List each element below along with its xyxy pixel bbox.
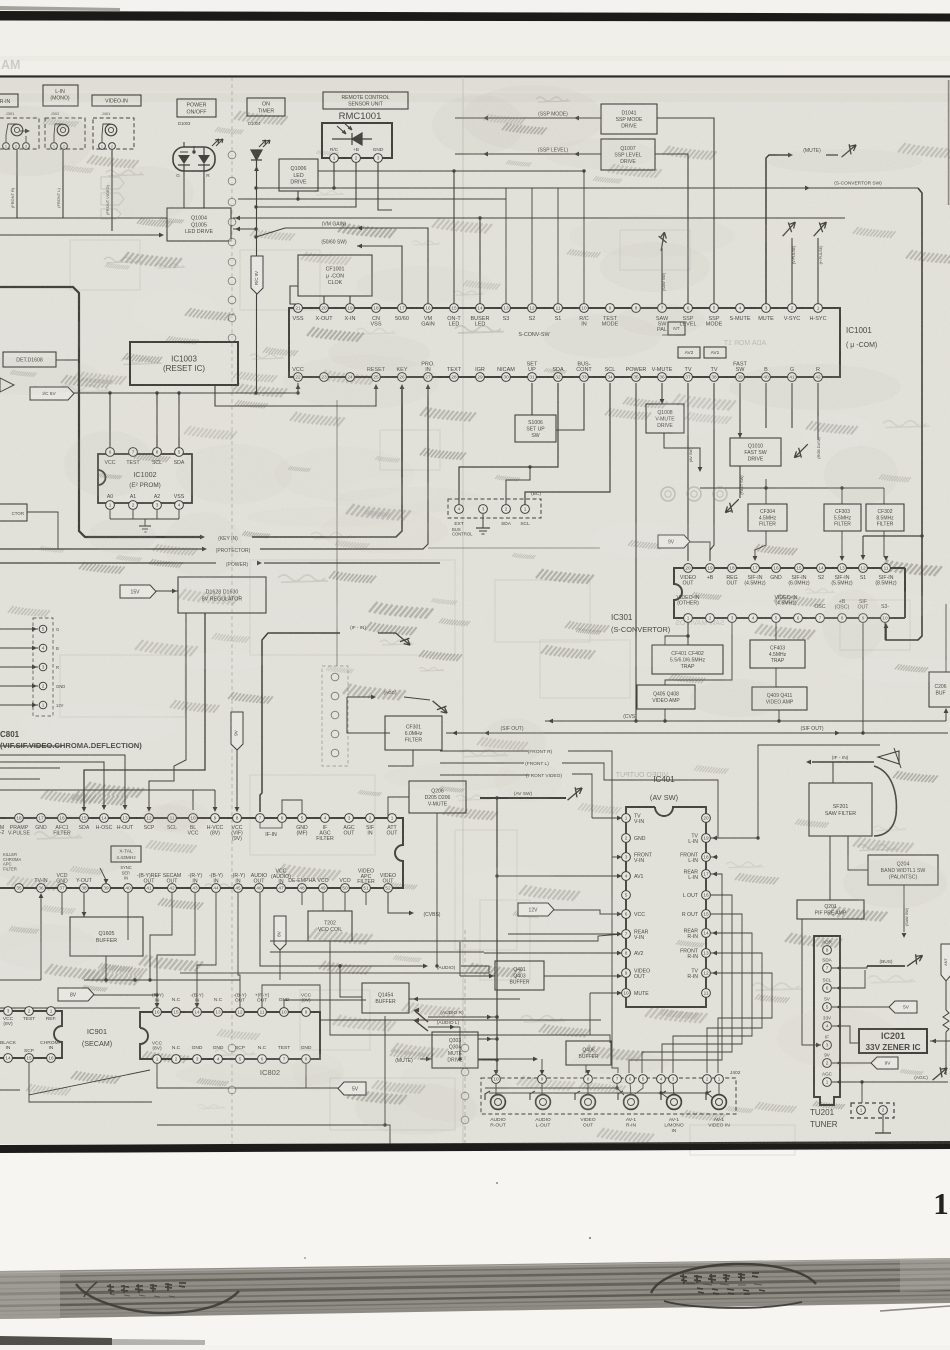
stamp right <box>651 1264 816 1308</box>
transistor Q303 Q304 MUTE box <box>432 1032 478 1068</box>
wire IC1003 to RESET pin <box>215 385 376 406</box>
wire Q1454 left <box>340 966 362 997</box>
LED D1001 D1002 dual indicator <box>173 147 215 171</box>
module RMC1001 box <box>322 123 392 158</box>
wire IC802 pin1 down <box>157 1064 306 1088</box>
wire V-MUTE drop <box>661 383 663 404</box>
power tag 5V tuner <box>889 1001 917 1013</box>
wire SDA bus out <box>832 966 867 968</box>
jack J301 dashed box <box>0 118 39 149</box>
wire bus 980 <box>0 1007 140 1009</box>
module IC1003 RESET box <box>130 342 238 385</box>
wire TV-IN arrow <box>40 898 42 980</box>
switch S1006 SET UP SW box <box>515 415 556 442</box>
wire AGC out <box>832 1081 948 1083</box>
ghost jack row <box>661 487 675 501</box>
op-amp U IC802 body <box>140 1012 320 1059</box>
power tag 15V <box>120 585 156 598</box>
wire LED to Q1004 <box>183 171 185 208</box>
diode D1041 SSP MODE DRIVE box <box>601 104 657 134</box>
wire 9V flag IC801 <box>231 712 243 750</box>
pins IC401 right <box>702 814 711 823</box>
wire FAST SW drop <box>739 383 741 438</box>
pins IC301 bottom row <box>684 614 693 623</box>
wire SCL bus out <box>832 970 865 988</box>
module BUF box right edge <box>929 672 950 707</box>
LED D1004 symbol <box>251 150 262 172</box>
wire SSP LEVEL right <box>655 154 688 304</box>
wire IC301 pin3 down <box>665 622 732 685</box>
wire RC9V rail <box>296 384 301 389</box>
wire S-CONV bus <box>256 187 918 189</box>
diode D1003 POWER ON/OFF box <box>177 99 216 117</box>
wire DE-EMPHA down <box>301 893 303 905</box>
regulator D1628 D1630 box <box>178 577 266 613</box>
wire CF301 down <box>388 750 413 766</box>
ghost flags <box>101 177 124 219</box>
ground IC1002 pins <box>109 510 111 519</box>
connector J301 R-IN label box <box>0 94 18 107</box>
wire R OUT right <box>662 914 742 1073</box>
flag ANT <box>941 944 950 981</box>
wire S-CONV branch <box>863 535 922 537</box>
net label MUTE <box>788 153 793 158</box>
wire audio L route <box>478 1058 536 1060</box>
wire SSP MODE left <box>455 117 601 119</box>
wire Q1006 bus <box>318 170 584 172</box>
wire H-OUT feed <box>0 762 104 806</box>
wire IC1001 SDA stub <box>506 467 530 505</box>
net label AUDIO L <box>428 1026 460 1028</box>
wire J402 bus1 <box>485 1083 617 1088</box>
wire left long vertical <box>496 798 498 1073</box>
wire BUS-CONT drop <box>556 383 584 430</box>
wire KEY IN right <box>252 388 402 537</box>
power tag 12V <box>518 903 554 916</box>
wire V PULSE <box>791 238 793 304</box>
wire CVS line <box>545 720 946 722</box>
pins IC901 top <box>4 1007 13 1016</box>
wire IC802 secam <box>150 893 172 980</box>
wires J402 jacks <box>495 1083 497 1095</box>
pins IC901 bottom <box>4 1054 13 1063</box>
wire front stubs left <box>440 750 528 752</box>
wire POWER left <box>0 562 216 564</box>
op-amp U IC901 body <box>0 1011 62 1058</box>
switch audio contacts <box>414 1010 428 1022</box>
wire RC IN up <box>583 171 585 304</box>
diode DET D1608 box <box>3 352 56 367</box>
label AV1 box <box>704 347 726 358</box>
pins J301 <box>3 143 10 150</box>
wire CTOR link <box>27 512 58 549</box>
power tag 5V IC802 <box>338 1082 366 1095</box>
jack J401 phono <box>105 124 117 136</box>
label NT box <box>668 322 685 335</box>
pins IC801 top row <box>15 814 24 823</box>
wire MUTE pin10 <box>590 992 622 994</box>
jack J301 phono <box>11 124 23 136</box>
trap CF401 CF402 box <box>652 645 723 674</box>
transistor Q1007 SSP LEVEL DRIVE box <box>601 139 655 170</box>
filter CF301 box <box>385 716 442 750</box>
wire q204 link <box>848 855 868 870</box>
wires P801 <box>0 628 38 630</box>
wire CF403 to amp <box>775 668 777 687</box>
transistor Q1008 V-MUTE DRIVE box <box>646 404 684 433</box>
wire REAR R-IN right <box>673 933 752 1073</box>
wire ON-T LED <box>453 171 455 304</box>
wire regulator out2 <box>149 613 186 808</box>
svg-text:AM: AM <box>1 58 20 72</box>
wire pin10 down <box>884 622 886 640</box>
wire long net y229 <box>233 228 256 230</box>
wire bottom run <box>157 1125 390 1144</box>
wire mid drop2 <box>105 980 107 1008</box>
net label AUDIO <box>260 893 424 966</box>
module IC1002 body <box>98 454 192 503</box>
wire FRONT V-IN link <box>612 856 622 858</box>
wire L OUT right <box>642 895 732 1073</box>
wire IC802 cross1 <box>157 893 195 1008</box>
transistor Q1006 LED DRIVE box <box>279 159 318 191</box>
wire SET UP drop <box>531 383 533 415</box>
pins BUS CONTROL <box>455 505 464 514</box>
amp Q405 Q408 VIDEO AMP box <box>637 685 695 709</box>
wire long 1035 <box>284 1000 610 1043</box>
wire T202 down <box>330 941 366 1000</box>
box PROTECTOR cut <box>0 504 27 521</box>
op-amp U IC301 body <box>674 568 905 618</box>
jack J401 dashed box <box>93 118 134 149</box>
connector J302 L-IN label box <box>43 85 78 106</box>
wire Q406 down <box>585 1065 587 1073</box>
wire RGB drops <box>765 383 767 428</box>
connector P801 dashed box <box>33 618 53 716</box>
label IF-IN bracket <box>260 823 282 828</box>
connector ghost column pins <box>461 1044 469 1052</box>
wire SAW SW <box>661 248 663 304</box>
diode D1004 ON TIMER box <box>247 98 285 116</box>
wire H PULSE <box>817 238 819 304</box>
wire TV R-IN right <box>710 973 772 1073</box>
connector BUS CONTROL dashed box <box>448 499 541 518</box>
wire bottom left edge <box>0 1089 20 1091</box>
wire IC301 pin1 down <box>687 622 689 645</box>
wire CF302 down <box>883 531 885 557</box>
wire RMC pin1 <box>333 162 335 188</box>
wire AV2 in <box>484 952 622 954</box>
wire Q1605 down <box>105 956 107 980</box>
wire SIF pin9 down <box>862 622 864 733</box>
wire RMC pin3 <box>378 162 392 210</box>
pins IC301 top row <box>684 564 693 573</box>
antenna resistor <box>945 970 947 1010</box>
stamp left <box>76 1282 239 1313</box>
amp Q409 Q411 VIDEO AMP box <box>752 687 807 710</box>
transistor Q1605 BUFFER box <box>70 917 143 956</box>
crystal X-TAL box <box>111 846 141 862</box>
wire BUSER LED <box>479 218 481 304</box>
wire VIF vcc <box>282 800 302 814</box>
wire regulator out <box>84 613 205 808</box>
wire IC802 cross2 <box>197 893 216 1008</box>
transistor Q206 V-MUTE box <box>409 781 466 813</box>
remote sensor unit label box <box>323 92 408 109</box>
wire IF-IN arrow <box>812 761 874 763</box>
net label S-CONVERTOR SW <box>805 186 810 191</box>
wire long net y218 <box>0 217 167 219</box>
wire FAST SW out <box>739 466 741 498</box>
wire Q206 left <box>388 797 409 818</box>
transistor Q1004 Q1005 LED DRIVE box <box>167 208 231 241</box>
transistor Q1010 FAST SW DRIVE box <box>730 438 781 466</box>
wire Q401 out <box>544 975 622 977</box>
power tag I/C 5V <box>30 387 74 400</box>
filter CF303 box <box>824 504 861 531</box>
wire POWER pin drop <box>635 383 637 721</box>
pins IC1002 bottom <box>106 501 115 510</box>
resonator CF1001 box <box>298 255 372 296</box>
op-amp U IC801 body <box>0 818 403 888</box>
wire TV AV2 drop <box>687 383 689 561</box>
jack J302 dashed box <box>45 118 85 149</box>
arrows J402 top <box>494 1070 499 1075</box>
ground CN201 <box>882 1115 884 1133</box>
wire H-VCC drop <box>214 790 216 808</box>
wire pin18 drop <box>612 857 618 1073</box>
filter CF302 box <box>866 504 904 531</box>
amp Q201 PIF PRE AMP box <box>797 900 864 919</box>
wire REAR L-IN right <box>629 874 722 1073</box>
tuner TU201 body <box>814 936 840 1105</box>
wire Q303 out <box>478 1038 497 1040</box>
wire TV V-IN link <box>592 817 622 819</box>
wire CF303 down <box>841 531 843 557</box>
module IC201 33V ZENER box <box>859 1029 927 1053</box>
wire Q1008 out <box>664 433 700 468</box>
wire APC down <box>365 893 367 905</box>
wire RMC pin2 <box>256 162 356 207</box>
wire SSP LEVEL left <box>455 153 601 155</box>
pins P801 column <box>39 625 47 633</box>
wire H lines left <box>0 767 60 769</box>
wire TV L-IN right <box>710 837 758 839</box>
wire SF201 down1 <box>829 836 831 900</box>
connector ghost column pins2 <box>228 1044 236 1052</box>
connector J401 VIDEO-IN label box <box>92 95 141 106</box>
coil T202 VCO COIL box <box>308 911 352 941</box>
wire SDA to bus <box>459 383 558 505</box>
wire rear bus left <box>270 934 622 941</box>
amp Q406 BUFFER box <box>566 1041 611 1065</box>
filter CF304 box <box>748 504 787 531</box>
pins J302 <box>51 143 58 150</box>
wire vertical 337 <box>336 400 338 666</box>
wire 50/60 SW <box>357 246 402 304</box>
wire BUF feed <box>945 604 947 672</box>
wire FRONT R <box>16 150 18 218</box>
wire FRONT L <box>62 150 64 218</box>
wire SCL to bus <box>525 383 610 505</box>
wire IC1002 SCL up <box>156 393 158 448</box>
wire FRONT L-IN right <box>710 856 718 858</box>
pins IC1002 top <box>106 448 115 457</box>
wire IC901 scp down <box>29 1063 150 1095</box>
wire IC1002 SDA up <box>178 393 180 448</box>
pins IC801 bottom row <box>15 884 24 893</box>
power tag 9V tuner <box>871 1057 898 1069</box>
connector board-edge column pins <box>228 151 236 159</box>
wire IC301 pin5 down <box>775 622 777 640</box>
wire IC201 right <box>930 1040 950 1042</box>
connector J402 dashed box <box>481 1078 736 1114</box>
wire AV1 in <box>497 875 622 877</box>
wire IF-IN loop <box>260 633 340 812</box>
wire to BL VCC <box>0 790 193 810</box>
wire POWER right <box>264 562 440 564</box>
wire +B bus <box>238 198 506 200</box>
jack J302 phono <box>57 124 69 136</box>
wire VCO drops <box>322 893 324 911</box>
wire 33V link <box>832 1026 859 1043</box>
power tag 8V IC901 <box>58 988 94 1001</box>
wire KEY IN loop <box>0 287 200 537</box>
wire rear bus left2 <box>270 951 484 953</box>
power tag R/C 9V <box>251 256 263 294</box>
wire long net y235 <box>0 234 161 236</box>
op-amp U IC401 body <box>626 807 706 1007</box>
pins IC1001 top row <box>294 304 303 313</box>
wire VCD GND down <box>61 893 63 915</box>
wire PROTECTOR left <box>0 548 203 550</box>
wire xtal arrow <box>100 868 106 880</box>
wire Q201 to IF <box>802 919 821 1045</box>
connector CN ghost column <box>322 666 348 766</box>
amp Q1454 BUFFER box <box>362 983 409 1013</box>
wire filters top rail <box>700 487 884 489</box>
wire audio second <box>180 972 489 974</box>
pins IC802 bottom <box>153 1055 162 1064</box>
wire AGC to CN <box>861 1082 863 1103</box>
label AV2 box <box>678 347 700 358</box>
filter SF201 SAW FILTER box <box>809 783 872 836</box>
wire IC1002 VCC up <box>109 393 111 448</box>
wire S-CONVERTOR SW drop <box>886 188 922 640</box>
wire S1 S2 S3 up <box>505 188 507 304</box>
wire AV SW thick <box>480 797 566 799</box>
wire Q1454 right <box>409 998 520 1000</box>
wire mid drop1 <box>127 893 129 940</box>
pins J402 <box>492 1075 501 1084</box>
wire RGB data arrow <box>817 428 819 440</box>
pins IC802 top <box>153 1008 162 1017</box>
jacks J402 row <box>491 1095 506 1110</box>
pins J401 <box>99 143 106 150</box>
wire SSP MODE right <box>657 118 714 304</box>
wire J402 bus2 <box>489 1083 707 1093</box>
wire CF301 up <box>347 697 390 733</box>
wire D1004 to RC line <box>256 172 258 393</box>
svg-text:1: 1 <box>933 1186 949 1221</box>
wire audio R drop <box>496 1045 498 1073</box>
switch Q204 BAND box <box>868 855 938 885</box>
pins IC401 left <box>622 814 631 823</box>
wire IC802 out1 <box>240 941 300 1008</box>
wire SIF line <box>446 732 948 734</box>
wire VM GAIN <box>256 228 428 304</box>
wire amps to cvs <box>664 709 666 721</box>
power tag 8V vert <box>274 916 286 950</box>
wire CF304 down <box>755 531 766 557</box>
wire DET link <box>56 359 79 361</box>
wire IC802 cross3 <box>238 893 240 1008</box>
wire saw loop <box>874 766 896 836</box>
ground BUS pin3 <box>482 514 484 528</box>
photodiode RMC1001 <box>332 133 372 145</box>
wire audio L drop <box>459 1027 461 1059</box>
op-amp U IC1001 body <box>289 308 840 377</box>
wire TV AV1 drop <box>710 383 714 561</box>
wire Y-OUT to Q1605 <box>83 893 85 917</box>
pennant IF <box>878 751 899 764</box>
power tag 9V IC301 <box>658 535 690 548</box>
connector CN201 dashed <box>851 1103 894 1118</box>
trap CF403 box <box>750 640 805 668</box>
wire FRONT R-IN right <box>707 953 762 1073</box>
amp Q401 Q403 BUFFER box <box>495 961 544 990</box>
wire H-OSC feed <box>0 755 125 806</box>
wire SF201 down2 <box>847 836 849 855</box>
wire REAR V-IN <box>508 933 622 935</box>
pins IC1001 bottom row <box>294 373 303 382</box>
wire PROTECTOR right <box>260 388 428 549</box>
wire VIDEO OUT to CVBS <box>388 893 410 913</box>
net label AUDIO R <box>428 1016 497 1018</box>
wire long 1020 <box>262 985 601 1020</box>
wire FRONT VIDEO <box>111 150 113 231</box>
wire SCP feed <box>0 745 62 747</box>
wire MUTE up <box>766 155 790 304</box>
wire CF1001 pins <box>323 296 325 304</box>
wire Q206 down <box>436 813 438 966</box>
